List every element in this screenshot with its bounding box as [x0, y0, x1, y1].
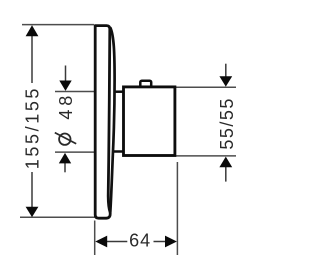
dim diameter 48 bottom extension line	[55, 151, 94, 153]
dim 64 arrow left	[95, 236, 107, 248]
dim 64 arrow right	[165, 236, 177, 248]
svg-text:155/155: 155/155	[22, 86, 42, 169]
dim text diameter symbol slash	[55, 133, 76, 144]
handle tab	[140, 81, 151, 88]
svg-text:64: 64	[129, 231, 151, 251]
dim diameter 48 arrow up	[59, 153, 71, 164]
escutcheon front silhouette	[110, 28, 114, 212]
dim 55/55 arrow up	[219, 157, 232, 168]
dim 155/155 line upper segment	[31, 36, 33, 84]
dim diameter 48 lower stub	[64, 163, 66, 173]
dim 155/155 bottom extension line	[20, 216, 95, 218]
svg-text:55/55: 55/55	[217, 97, 237, 150]
dim text diameter symbol circle	[59, 134, 70, 145]
dim diameter 48 arrow down	[59, 81, 71, 91]
dim 64 right tail	[154, 241, 167, 243]
dim 55/55 upper stub	[225, 64, 227, 77]
dim diameter 48 upper stub	[65, 66, 67, 82]
sleeve bottom edge	[113, 150, 125, 153]
handle body	[124, 87, 175, 156]
dim diameter 48 top extension line	[55, 91, 94, 93]
svg-text:48: 48	[56, 92, 76, 120]
dim 155/155 top extension line	[22, 24, 94, 26]
dim 64 right extension line	[176, 162, 178, 255]
dim 155/155 line lower segment	[31, 172, 33, 208]
dim 55/55 lower stub	[225, 167, 227, 182]
dim 55/55 top extension line	[176, 86, 236, 88]
dim 55/55 arrow down	[219, 76, 232, 86]
dim 155/155 arrow up	[26, 25, 39, 36]
dim 64 left tail	[107, 241, 128, 243]
escutcheon plate outline	[95, 26, 110, 219]
dim 55/55 bottom extension line	[176, 155, 236, 157]
dim 64 left extension line	[94, 221, 96, 256]
sleeve top edge	[114, 90, 125, 93]
dim 155/155 arrow down	[26, 207, 39, 217]
